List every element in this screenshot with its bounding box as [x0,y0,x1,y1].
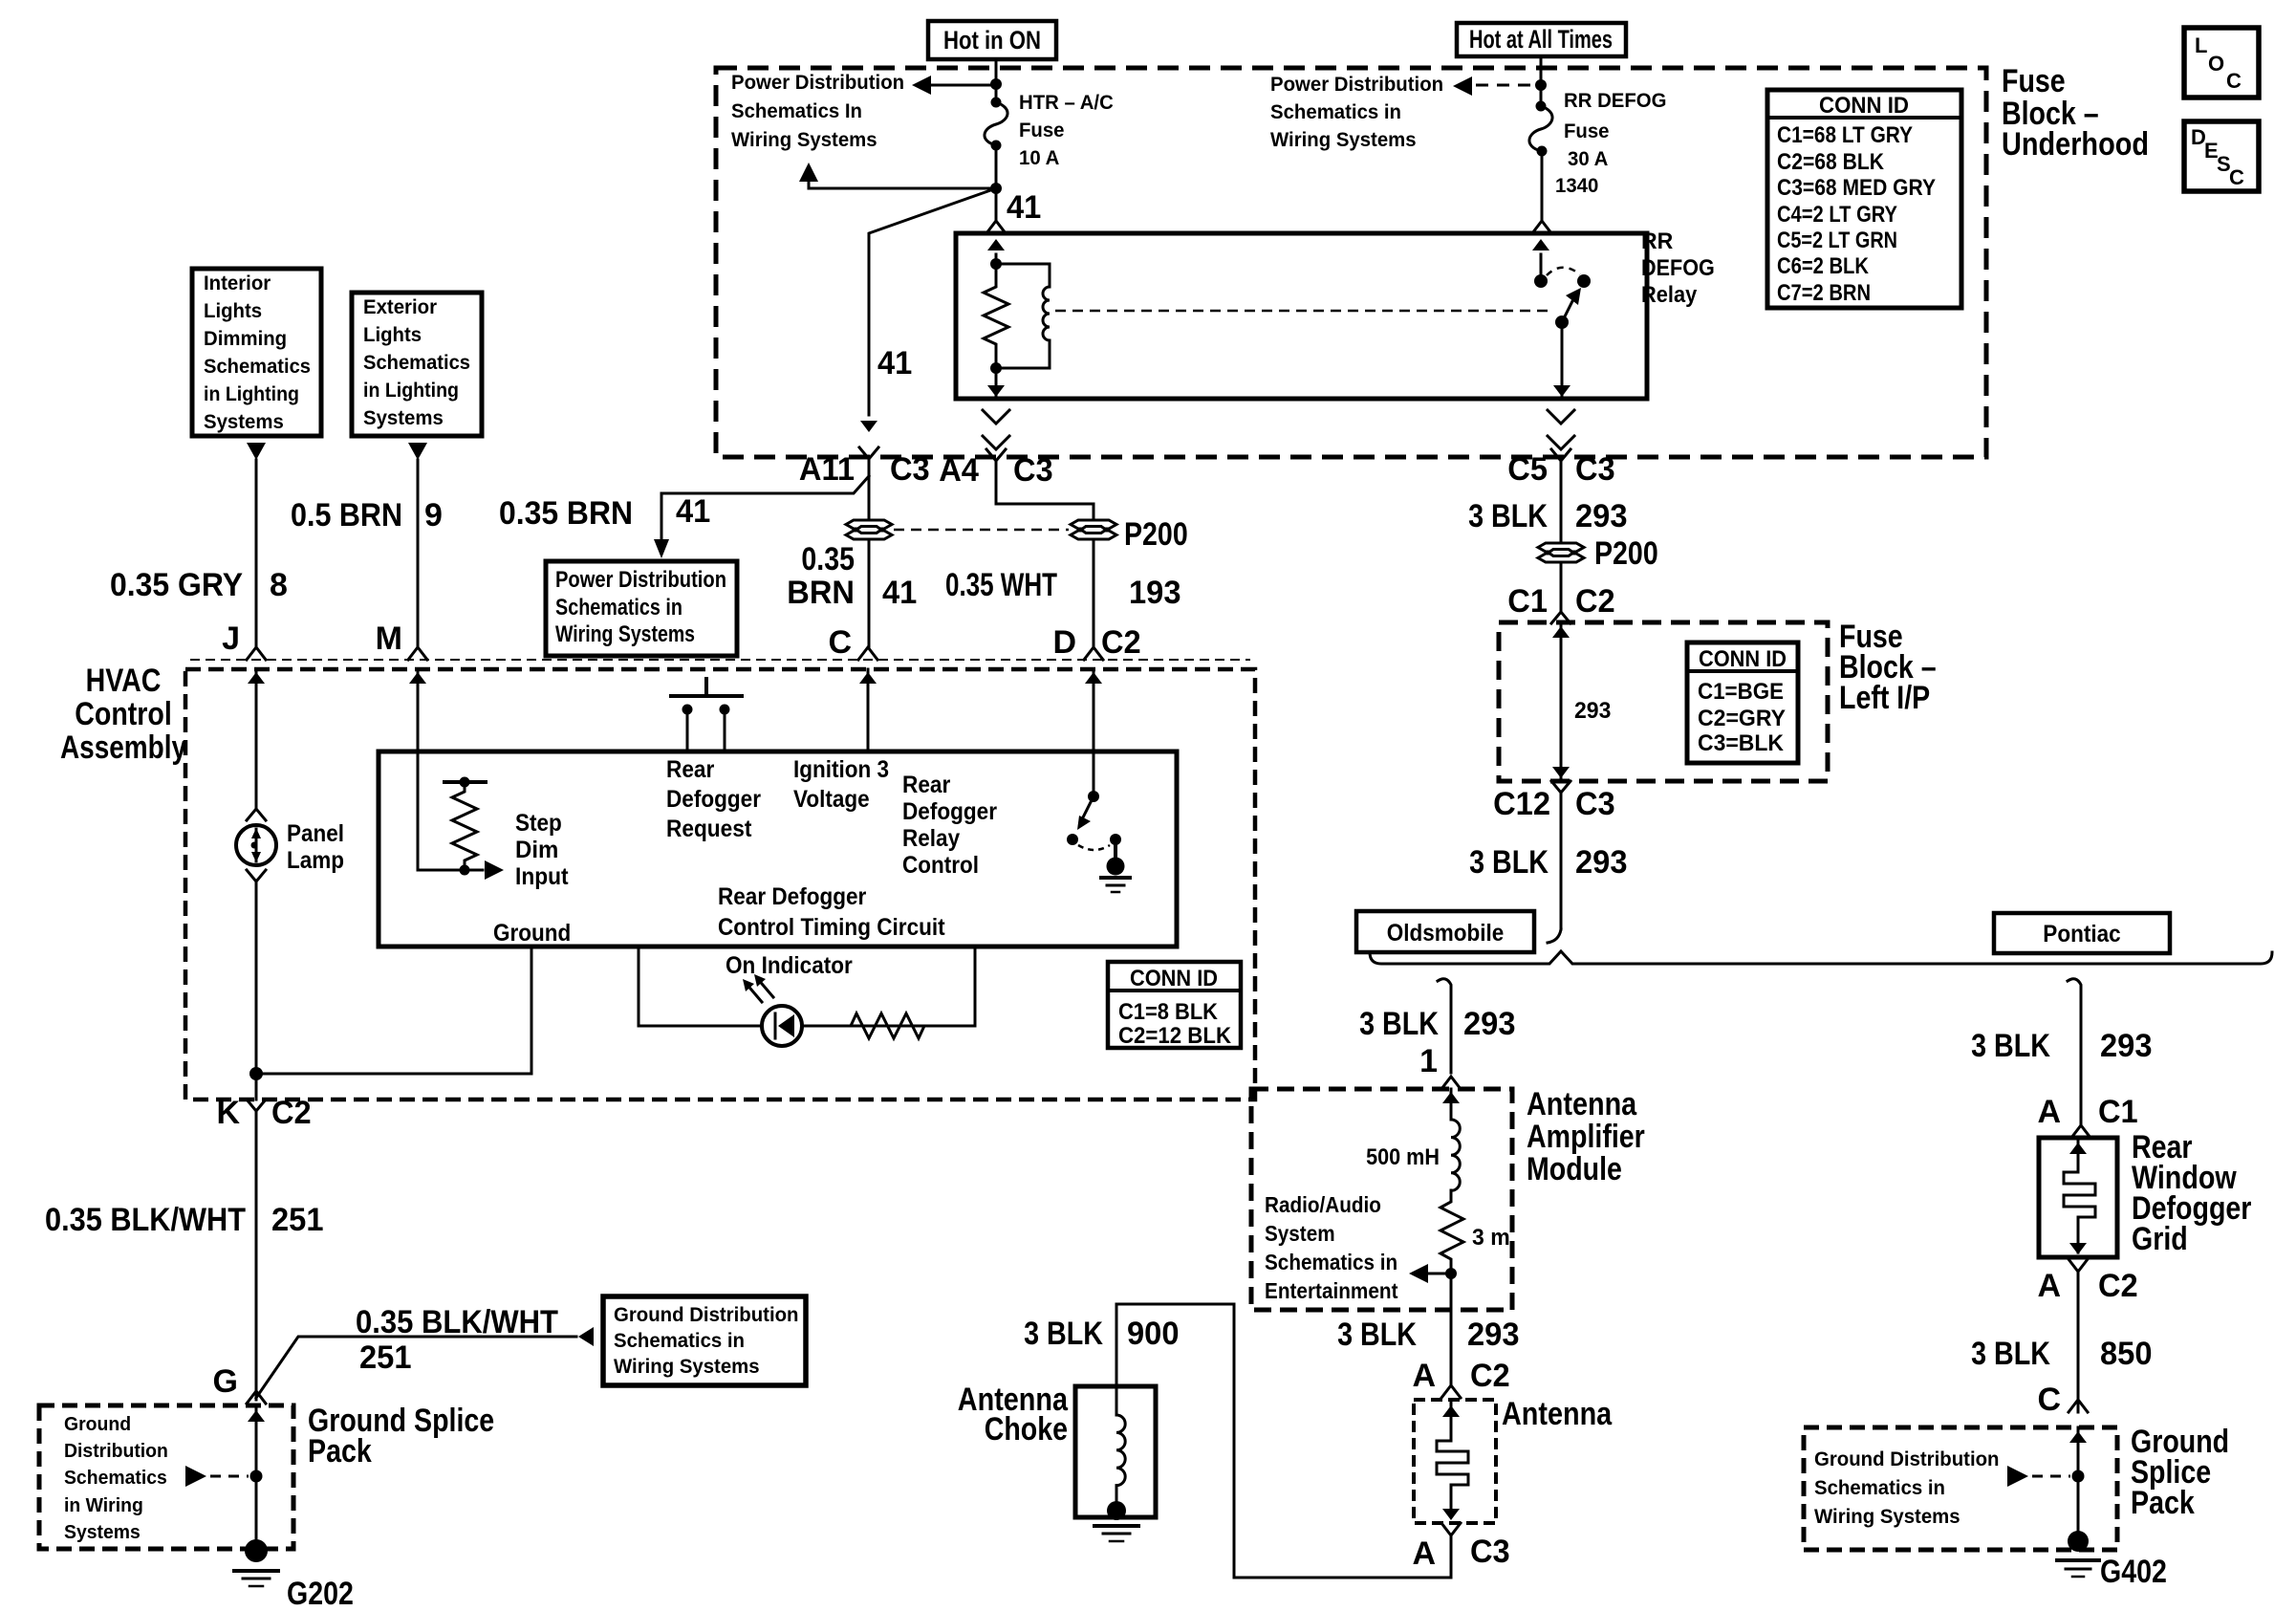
connector K/C2 at HVAC bottom [247,1099,266,1133]
wire K to G [255,1133,258,1400]
wire dashed relay actuation link [1055,310,1554,313]
label 3 BLK 293 [1469,844,1627,881]
svg-text:Fuse: Fuse [1564,120,1610,142]
relay coil node bottom [990,362,1002,374]
svg-text:C3: C3 [1575,451,1615,488]
wire step dim input arrow [418,869,483,872]
fuse block left IP dashed box [1499,622,1828,781]
node Pontiac [1994,913,2170,953]
svg-text:C2: C2 [1575,583,1615,620]
relay switch contact [1577,274,1591,288]
label RR DEFOG Fuse 30 A 1340 [1555,90,1667,197]
svg-text:1: 1 [1419,1043,1438,1079]
svg-text:293: 293 [1574,698,1611,724]
connector C into ground splice pack [2069,1400,2088,1412]
svg-text:C: C [2229,165,2244,189]
svg-text:293: 293 [2100,1028,2153,1064]
connector chevron into relay [986,221,1006,233]
svg-text:C2: C2 [2098,1268,2138,1304]
svg-text:C3: C3 [1470,1534,1510,1570]
junction [990,78,1002,90]
svg-text:Interior: Interior [204,272,271,294]
svg-text:Choke: Choke [985,1411,1068,1448]
pin J connector [247,647,266,660]
label Fuse Block Underhood [2002,63,2149,163]
svg-text:Amplifier: Amplifier [1527,1119,1645,1155]
node Hot at All Times [1457,23,1626,56]
svg-text:Antenna: Antenna [1527,1086,1637,1122]
wire end hook [1548,929,1561,943]
ground G402 splice dot [2068,1531,2089,1552]
fuse block underhood dashed box [716,68,1986,457]
antenna choke box [1075,1386,1156,1517]
antenna dashed box [1414,1400,1496,1523]
svg-text:Grid: Grid [2132,1221,2188,1257]
wire arrow to radio/audio [1428,1273,1451,1275]
relay switch blade arrow [1562,299,1573,322]
svg-text:Ground Distribution: Ground Distribution [614,1304,799,1326]
svg-text:Systems: Systems [64,1522,141,1543]
wire C ignition voltage [867,669,870,751]
inductor 500 mH [1451,1120,1460,1190]
svg-text:Relay: Relay [1641,282,1698,308]
junction ground node [249,1067,263,1080]
svg-text:0.35 BLK/WHT: 0.35 BLK/WHT [356,1304,558,1340]
relay switch pivot [1534,274,1548,288]
label Rear Defogger Relay Control [902,772,997,879]
svg-text:9: 9 [424,497,443,533]
svg-text:Power Distribution: Power Distribution [555,567,726,593]
svg-text:Ground: Ground [493,920,571,947]
svg-text:in Lighting: in Lighting [363,380,459,402]
brace split to both vehicles [1370,951,2272,964]
svg-text:Underhood: Underhood [2002,126,2149,163]
rear window defogger grid box [2039,1138,2117,1257]
svg-text:Hot in ON: Hot in ON [943,26,1041,54]
svg-text:C2: C2 [271,1095,312,1131]
svg-text:3 BLK: 3 BLK [1337,1317,1417,1353]
svg-text:Hot at All Times: Hot at All Times [1469,25,1613,54]
connector C1/C2 into fuse block left IP [1551,612,1570,623]
label Ignition 3 Voltage [793,756,889,813]
label Fuse Block Left I/P [1839,619,1937,716]
svg-text:HVAC: HVAC [86,663,162,699]
svg-text:Request: Request [666,816,752,842]
wire antenna lead to choke [1116,1304,1451,1578]
svg-text:3 BLK: 3 BLK [1971,1028,2050,1064]
svg-text:Fuse: Fuse [2002,63,2066,99]
switch rear defogger request [671,679,742,751]
label 3 BLK 293 [1359,1006,1515,1042]
antenna mast symbol [1437,1400,1468,1520]
svg-text:Wiring Systems: Wiring Systems [1270,129,1417,151]
svg-text:Radio/Audio: Radio/Audio [1265,1192,1381,1217]
pin D connector [1084,647,1103,660]
label 3 BLK 850 [1971,1336,2152,1372]
connector C12/C3 below fuse block [1551,781,1570,815]
inductor relay coil [996,264,1050,368]
connector row thin dashed line [190,659,1250,661]
CONN ID table (HVAC) [1108,962,1241,1049]
junction [1445,1268,1457,1279]
node Oldsmobile [1356,911,1534,952]
wire into splice with arrow [255,1405,258,1539]
relay switch throw arc [1547,268,1580,275]
wire C5 to P200 [1560,483,1563,612]
svg-text:Assembly: Assembly [60,729,186,766]
ground splice pack dashed box (right) [1804,1427,2117,1550]
svg-text:P200: P200 [1594,535,1658,572]
svg-text:DEFOG: DEFOG [1641,255,1715,281]
resistor step dim [444,777,486,876]
DESC tag [2184,121,2259,191]
svg-text:193: 193 [1129,575,1181,611]
svg-text:CONN ID: CONN ID [1699,646,1787,672]
svg-text:Power Distribution: Power Distribution [1270,74,1443,96]
relay RR DEFOG box [956,233,1647,399]
svg-text:Schematics in: Schematics in [1265,1250,1397,1274]
label 3 BLK 293 [1337,1317,1519,1353]
svg-text:in Lighting: in Lighting [204,383,299,405]
svg-text:Input: Input [515,863,569,890]
wire grid to ground splice [2077,1293,2080,1412]
antenna amplifier module dashed box [1251,1089,1512,1310]
wire M inside with arrow [417,669,420,870]
svg-text:30 A: 30 A [1568,148,1608,170]
ground symbol G402 [2057,1560,2099,1577]
svg-text:C5: C5 [1507,451,1548,488]
lamp terminal chevron [247,870,266,882]
svg-text:C12: C12 [1493,786,1550,822]
wire diagonal branch to A11 [869,188,996,415]
svg-text:0.35 WHT: 0.35 WHT [945,567,1057,603]
wire dashed P200 link [894,529,1069,532]
wire Oldsmobile branch hook [1438,979,1451,1073]
svg-text:RR: RR [1641,229,1673,254]
reference Radio/Audio System Schematics in Entertainment [1265,1192,1398,1303]
wire module output [1450,1274,1453,1384]
svg-text:CONN ID: CONN ID [1130,966,1218,991]
svg-text:41: 41 [877,345,912,381]
svg-text:3 BLK: 3 BLK [1469,844,1549,881]
HVAC inner circuit box [379,751,1177,947]
svg-text:0.35 BLK/WHT: 0.35 BLK/WHT [45,1202,246,1238]
LED on indicator [743,974,802,1046]
reference Ground Distribution Schematics in Wiring Systems (inside) [64,1414,168,1543]
svg-text:3 BLK: 3 BLK [1024,1316,1103,1352]
wire elbow arrow up-left [809,182,996,188]
connector A/C2 below grid [2069,1259,2088,1293]
svg-text:3 BLK: 3 BLK [1359,1006,1439,1042]
svg-text:Ground: Ground [64,1414,131,1435]
wire coil to A4 output [995,368,998,395]
svg-text:C3=68 MED GRY: C3=68 MED GRY [1777,175,1936,201]
label Antenna Choke [958,1382,1069,1448]
node Hot in ON [928,21,1056,59]
lamp Panel Lamp [236,825,276,865]
label 0.35 GRY 8 [110,567,288,603]
svg-text:Fuse: Fuse [1019,120,1065,142]
svg-text:A: A [1412,1535,1436,1572]
svg-text:Relay: Relay [902,825,960,852]
wire D relay control [1093,669,1095,796]
svg-text:Systems: Systems [363,407,444,429]
label Panel Lamp [287,820,344,874]
arrow from exterior lights box [408,443,427,460]
svg-text:3 m: 3 m [1472,1225,1510,1251]
svg-text:0.5 BRN: 0.5 BRN [291,497,402,533]
svg-text:Ignition 3: Ignition 3 [793,756,889,783]
svg-text:Voltage: Voltage [793,786,870,813]
LOC tag [2184,28,2259,98]
svg-text:Schematics in: Schematics in [1270,101,1401,123]
wire branch to ground distribution ref [256,1337,576,1398]
svg-text:Antenna: Antenna [1502,1396,1613,1432]
resistor LED series [802,1013,975,1038]
reference box Ground Distribution Schematics in Wiring Systems [603,1296,806,1385]
svg-text:C3: C3 [890,451,930,488]
resistor (relay coil resistance) [984,264,1008,368]
svg-text:Ground Distribution: Ground Distribution [1814,1448,2000,1470]
svg-text:Distribution: Distribution [64,1441,168,1462]
svg-text:C6=2 BLK: C6=2 BLK [1777,253,1870,279]
svg-text:RR DEFOG: RR DEFOG [1564,90,1667,112]
connector A4/C3 at fuse block edge [983,410,1009,424]
svg-text:900: 900 [1127,1316,1180,1352]
grid element symbol [2064,1138,2095,1254]
svg-text:Pack: Pack [2131,1485,2195,1521]
svg-text:C5=2 LT GRN: C5=2 LT GRN [1777,228,1897,253]
svg-text:Pack: Pack [308,1433,372,1469]
connector chevron into relay [1532,221,1551,233]
svg-text:293: 293 [1467,1317,1520,1353]
svg-text:C2=GRY: C2=GRY [1698,706,1786,731]
svg-text:293: 293 [1575,844,1628,881]
ground splice pack dashed box (left) [39,1405,293,1549]
wire Pontiac branch hook [2068,979,2081,1124]
svg-text:Rear Defogger: Rear Defogger [718,883,867,910]
wire exterior lights to pin M [417,460,420,647]
svg-text:10 A: 10 A [1019,147,1059,169]
label RR DEFOG Relay [1641,229,1715,308]
wire J inside with arrow [255,669,258,809]
relay switch lower node [1555,316,1569,329]
svg-text:0.35 BRN: 0.35 BRN [499,495,633,532]
svg-text:Entertainment: Entertainment [1265,1278,1398,1303]
wire arrow to power distribution (left) [929,84,996,87]
svg-text:8: 8 [270,567,288,603]
wire switch output [1561,322,1564,395]
svg-text:Control Timing Circuit: Control Timing Circuit [718,914,945,941]
arrow dashed splice tap [2007,1466,2028,1487]
wire C12 to split [1560,815,1563,929]
reference Power Distribution Schematics in Wiring Systems (top middle) [1270,74,1443,151]
wire into splice with arrow [2077,1427,2080,1541]
svg-text:A4: A4 [939,452,979,489]
svg-text:0.35 GRY: 0.35 GRY [110,567,243,603]
reference box Power Distribution Schematics in Wiring Systems [546,561,737,656]
label 0.35 BRN 41 [499,493,710,532]
relay switch common arrow [1540,254,1543,280]
label Rear Defogger Request [666,756,761,842]
connector A/C1 into grid [2071,1125,2090,1138]
connector A11/C3 at fuse block edge [859,447,878,483]
svg-text:Control: Control [75,696,172,732]
inductor choke coil [1116,1386,1125,1505]
label HVAC Control Assembly [60,663,186,766]
connector C5/C3 at fuse block edge [1548,410,1574,424]
resistor 3 m [1440,1190,1463,1268]
svg-text:0.35: 0.35 [801,541,855,577]
wire A11 branch to power distribution ref [661,476,869,539]
pin 1 connector into antenna amplifier [1441,1077,1461,1089]
svg-text:293: 293 [1463,1006,1516,1042]
svg-text:C1: C1 [1507,583,1548,620]
connector A/C2 into antenna [1441,1385,1461,1398]
svg-text:K: K [216,1095,240,1131]
label Rear Window Defogger Grid [2132,1129,2251,1257]
svg-text:G202: G202 [287,1576,354,1611]
svg-text:J: J [222,620,240,657]
svg-text:D: D [1052,624,1076,661]
svg-text:C3: C3 [1013,452,1053,489]
reference Ground Distribution Schematics in Wiring Systems [1814,1448,2000,1528]
label 3 BLK 293 [1971,1028,2152,1064]
svg-text:Step: Step [515,810,562,837]
svg-text:P200: P200 [1124,516,1188,553]
label Rear Defogger Control Timing Circuit [718,883,945,941]
svg-text:Wiring Systems: Wiring Systems [1814,1506,1960,1528]
svg-text:500 mH: 500 mH [1366,1144,1440,1170]
svg-text:3 BLK: 3 BLK [1971,1336,2050,1372]
svg-text:251: 251 [271,1202,324,1238]
svg-text:System: System [1265,1221,1335,1246]
wire through fuse block with arrows [1560,623,1563,780]
label 0.35 WHT 193 [945,567,1181,611]
wire ground pin to lamp return [263,947,531,1074]
svg-text:Wiring Systems: Wiring Systems [614,1356,760,1378]
svg-text:Schematics: Schematics [204,356,311,378]
arrow dashed splice tap [185,1466,206,1487]
svg-text:L: L [2195,33,2207,57]
svg-text:in Wiring: in Wiring [64,1495,143,1516]
wire LED loop left [638,947,640,1026]
relay coil input arrow [995,254,998,264]
wire below fuse [995,145,998,220]
svg-text:Rear: Rear [666,756,715,783]
label 0.5 BRN 9 [291,497,443,533]
svg-text:Wiring Systems: Wiring Systems [555,621,695,647]
wire dashed arrow to power distribution [1476,84,1541,87]
svg-text:C: C [828,624,852,661]
svg-text:Oldsmobile: Oldsmobile [1387,920,1505,947]
CONN ID table (underhood) [1767,90,1961,308]
svg-text:Dim: Dim [515,837,558,863]
svg-text:C1=8 BLK: C1=8 BLK [1118,999,1219,1025]
pin C connector [858,647,877,660]
label 0.35 BLK/WHT 251 [45,1202,324,1238]
fuse F1 HTR A/C symbol [985,98,1007,151]
label Antenna Amplifier Module [1527,1086,1645,1187]
svg-text:C3=BLK: C3=BLK [1698,730,1785,756]
wire LED loop right [974,947,977,1026]
label 3 BLK 293 [1468,498,1627,534]
svg-text:Dimming: Dimming [204,328,287,350]
svg-text:Schematics In: Schematics In [731,100,862,122]
svg-text:O: O [2208,52,2224,76]
svg-text:Systems: Systems [204,411,284,433]
svg-text:C: C [2226,69,2242,93]
svg-text:Left I/P: Left I/P [1839,680,1930,716]
wire LED horizontal [639,1025,762,1028]
fuse F2 RR DEFOG symbol [1529,101,1552,157]
svg-text:251: 251 [359,1339,412,1376]
relay coil node top [990,258,1002,270]
svg-text:41: 41 [676,493,710,530]
svg-text:Lights: Lights [204,300,262,322]
wire fuse to relay switch [1541,151,1544,220]
svg-text:Lamp: Lamp [287,847,344,874]
junction [1535,79,1547,91]
inline connector P200 (right path) [1538,543,1584,562]
svg-text:Schematics in: Schematics in [555,595,682,620]
svg-text:A11: A11 [799,451,855,488]
svg-text:Exterior: Exterior [363,296,437,318]
junction [990,183,1002,194]
svg-text:1340: 1340 [1555,175,1598,197]
label 0.35 BLK/WHT 251 (branch) [356,1304,558,1376]
svg-text:Power Distribution: Power Distribution [731,72,904,94]
label HTR A/C Fuse 10 A [1019,92,1114,169]
CONN ID table (left IP) [1687,642,1798,763]
lamp terminal chevron [247,809,266,820]
svg-text:C2=68 BLK: C2=68 BLK [1777,149,1885,175]
svg-text:Schematics: Schematics [64,1468,167,1489]
switch rear defogger relay control [1067,791,1130,892]
svg-text:Schematics: Schematics [363,352,470,374]
svg-text:C2=12 BLK: C2=12 BLK [1118,1023,1232,1049]
svg-text:3 BLK: 3 BLK [1468,498,1548,534]
svg-text:On Indicator: On Indicator [726,952,853,979]
wire interior lights to pin J [255,460,258,647]
wire A4 jog to D [996,483,1094,647]
svg-text:CONN ID: CONN ID [1819,93,1909,119]
svg-text:G402: G402 [2100,1554,2167,1590]
svg-text:Panel: Panel [287,820,344,847]
HVAC control assembly dashed box [185,669,1255,1099]
svg-text:G: G [213,1363,238,1400]
ground splice dot [1107,1501,1126,1520]
svg-text:C2: C2 [1101,624,1141,661]
inline connector P200 right half [1071,520,1116,539]
svg-text:C4=2 LT GRY: C4=2 LT GRY [1777,202,1897,228]
svg-text:C2: C2 [1470,1358,1510,1394]
svg-text:C: C [2037,1382,2061,1418]
svg-text:A: A [2037,1268,2061,1304]
svg-text:C1=BGE: C1=BGE [1698,679,1784,705]
connector G into splice pack [247,1391,266,1404]
svg-text:Control: Control [902,852,979,879]
wire Hot in ON feed [995,59,998,102]
svg-text:Lights: Lights [363,324,422,346]
svg-text:850: 850 [2100,1336,2153,1372]
label Ground Splice Pack [2131,1424,2229,1521]
pin M connector [408,647,427,660]
wire BRN 41 down to HVAC pin C [868,483,871,647]
svg-text:Schematics in: Schematics in [614,1330,745,1352]
svg-text:Pontiac: Pontiac [2043,921,2120,947]
svg-text:Module: Module [1527,1151,1622,1187]
